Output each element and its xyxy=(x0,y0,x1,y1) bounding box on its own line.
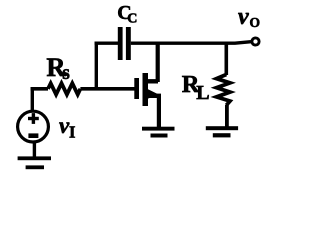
transistor Q1 gate bar xyxy=(134,78,139,99)
wire: top rail from capacitor corner to output terminal xyxy=(95,42,251,44)
capacitor C1 plates xyxy=(118,27,131,60)
transistor Q1 source lead xyxy=(145,94,161,98)
plus sign inside source xyxy=(28,113,39,124)
wire: stem from source circle down to ground xyxy=(33,142,36,157)
svg-text:O: O xyxy=(250,15,261,30)
voltage source VI circle xyxy=(18,111,49,142)
label resistor Rs xyxy=(46,52,70,84)
minus sign inside source xyxy=(28,133,38,138)
svg-text:L: L xyxy=(196,82,209,104)
svg-text:C: C xyxy=(127,12,137,27)
wire: stem from gate wire down to source circle xyxy=(31,87,34,111)
wire: vertical from capacitor left down to gate node xyxy=(95,42,98,91)
wire: drain vertical up to top rail xyxy=(156,42,160,83)
ground under voltage source xyxy=(18,156,51,169)
wire: gate wire from source corner to MOSFET gate xyxy=(31,87,135,91)
svg-text:s: s xyxy=(62,63,70,84)
label capacitor CC xyxy=(117,2,137,26)
ground under transistor source xyxy=(142,127,175,138)
transistor Q1 drain lead xyxy=(145,79,158,83)
svg-text:v: v xyxy=(238,4,249,30)
transistor Q1 source arrow xyxy=(146,88,158,99)
label resistor RL xyxy=(182,71,210,104)
transistor Q1 channel bar xyxy=(143,73,149,106)
wire: RL branch from top rail down to resistor xyxy=(225,42,229,76)
wire: RL bottom lead down to ground xyxy=(225,105,229,127)
label output vO xyxy=(238,4,260,30)
resistor Rs zigzag xyxy=(48,83,80,94)
label source vI xyxy=(59,113,75,142)
ground under RL xyxy=(206,126,238,137)
resistor RL zigzag xyxy=(217,75,231,106)
wire: source vertical down to ground xyxy=(157,94,161,127)
terminal: output node open circle xyxy=(252,38,259,45)
svg-text:I: I xyxy=(69,122,75,141)
